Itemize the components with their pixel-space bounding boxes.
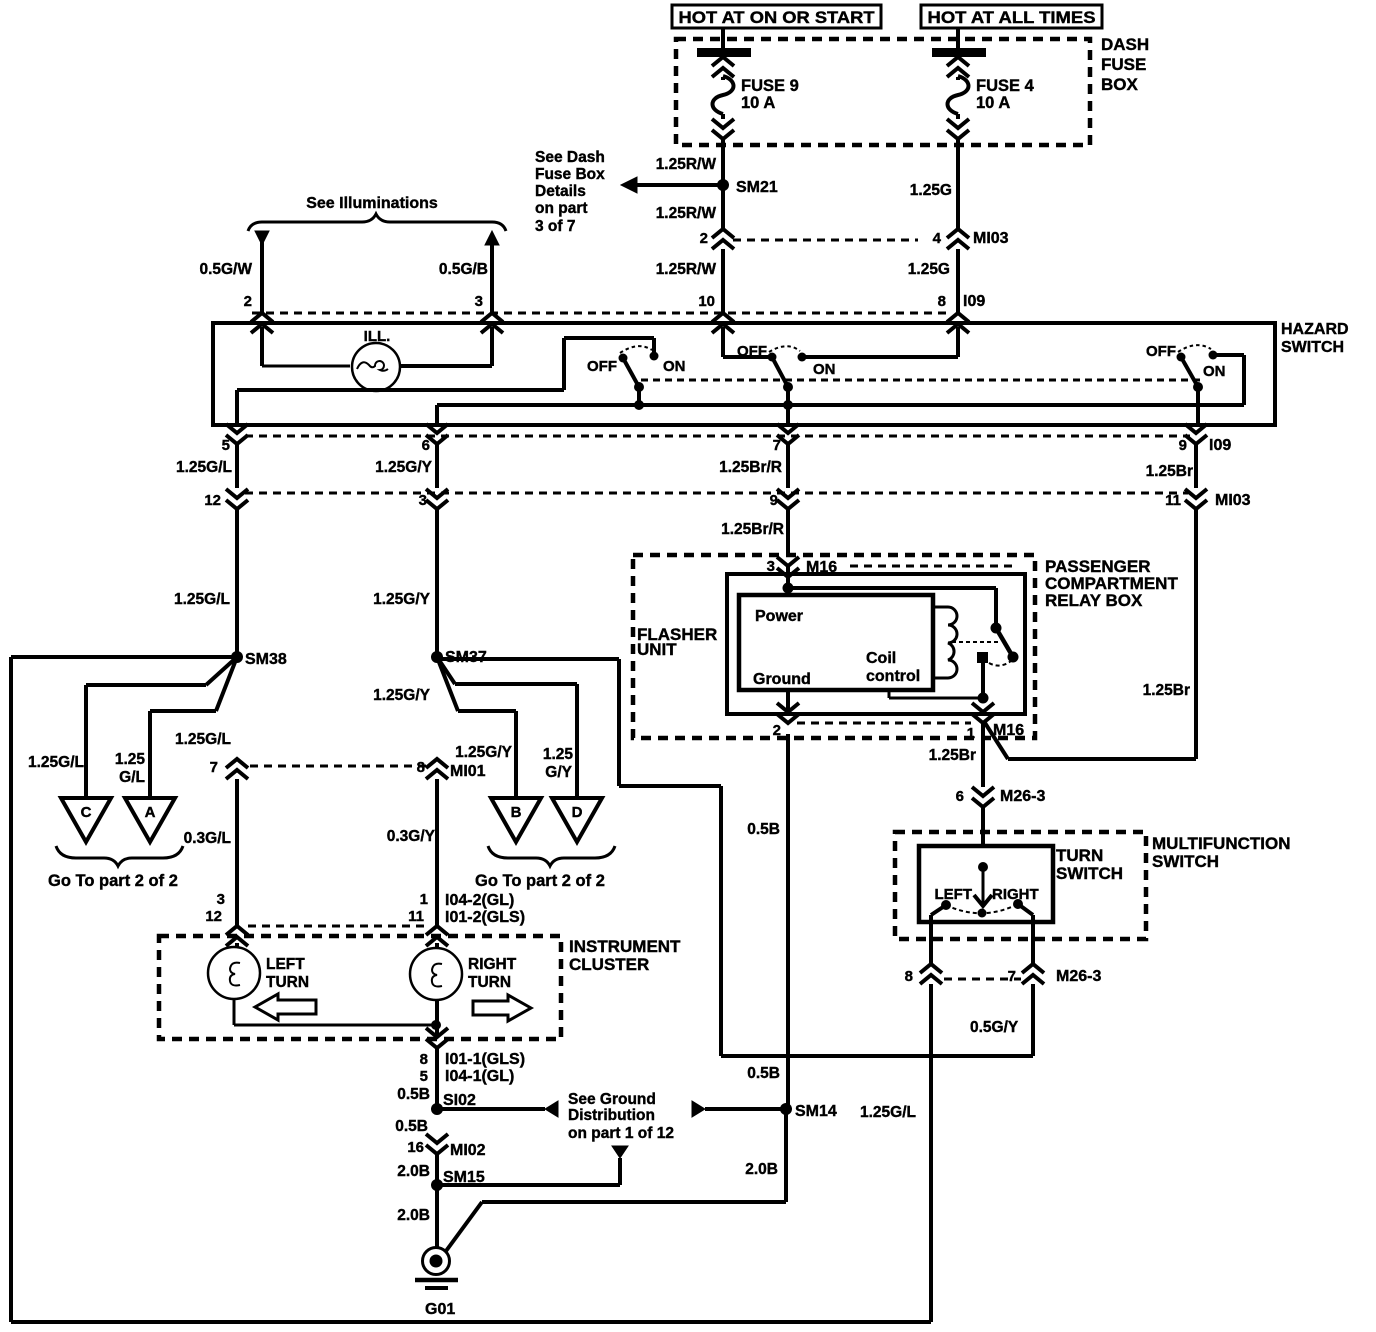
connector MI03 pin 3 bbox=[426, 489, 448, 509]
svg-text:SM21: SM21 bbox=[736, 179, 778, 196]
svg-text:MI03: MI03 bbox=[973, 230, 1009, 247]
svg-text:G/Y: G/Y bbox=[545, 764, 572, 781]
svg-text:1.25G/Y: 1.25G/Y bbox=[455, 744, 513, 761]
svg-text:MI03: MI03 bbox=[1215, 492, 1251, 509]
svg-text:I01-2(GLS): I01-2(GLS) bbox=[445, 909, 525, 926]
svg-text:SWITCH: SWITCH bbox=[1281, 339, 1344, 356]
wire power to relay fixed contact bbox=[788, 586, 996, 590]
svg-text:2: 2 bbox=[773, 722, 781, 739]
svg-text:LEFT: LEFT bbox=[935, 886, 973, 903]
svg-text:control: control bbox=[866, 668, 920, 685]
connector MI01 pin 8 bbox=[426, 759, 448, 779]
connector M16 pin 3 bbox=[777, 557, 799, 577]
svg-text:Power: Power bbox=[755, 608, 803, 625]
wire MI02 to SM15 bbox=[435, 1154, 439, 1185]
svg-text:HAZARD: HAZARD bbox=[1281, 321, 1349, 338]
connector M26-3 dashed row (bottom) bbox=[944, 978, 1021, 981]
svg-text:1.25G/L: 1.25G/L bbox=[176, 459, 232, 476]
svg-text:12: 12 bbox=[205, 908, 222, 925]
connector MI03 pin 4 bbox=[947, 229, 969, 249]
svg-text:1.25G/L: 1.25G/L bbox=[175, 731, 231, 748]
svg-text:SI02: SI02 bbox=[443, 1092, 476, 1109]
svg-text:OFF: OFF bbox=[737, 343, 767, 360]
svg-text:See Dash: See Dash bbox=[535, 149, 605, 166]
svg-text:8: 8 bbox=[905, 968, 913, 985]
svg-text:1.25G/Y: 1.25G/Y bbox=[375, 459, 433, 476]
wire pin8 down (left turn) bbox=[929, 984, 933, 1322]
wire SM15 to ground bbox=[435, 1185, 439, 1247]
svg-text:3: 3 bbox=[419, 492, 427, 509]
connector I09 pin 9 bbox=[1185, 424, 1207, 444]
multifunction switch box (dashed) bbox=[895, 832, 1146, 939]
svg-text:MI01: MI01 bbox=[450, 763, 486, 780]
svg-text:11: 11 bbox=[408, 908, 424, 925]
wire pin5 to MI03 bbox=[235, 443, 239, 488]
hazard bus wire bbox=[437, 403, 1244, 407]
wire pin2 to I09 pin10 bbox=[721, 249, 725, 313]
turn switch RIGHT contact bbox=[1013, 899, 1023, 909]
relay fixed contact bbox=[991, 623, 1002, 634]
svg-text:2: 2 bbox=[700, 230, 708, 247]
svg-text:on part 1 of 12: on part 1 of 12 bbox=[568, 1125, 674, 1142]
svg-text:0.5G/B: 0.5G/B bbox=[439, 261, 488, 278]
passenger compartment relay box (dashed) bbox=[633, 555, 1035, 738]
branch SM37 to D bbox=[437, 657, 455, 684]
svg-text:0.3G/Y: 0.3G/Y bbox=[387, 828, 436, 845]
wire pin4 to I09 pin8 bbox=[956, 249, 960, 313]
switch S1 ON contact bbox=[650, 352, 659, 361]
svg-text:1.25G/L: 1.25G/L bbox=[174, 591, 230, 608]
svg-text:RELAY BOX: RELAY BOX bbox=[1045, 591, 1143, 610]
svg-text:TURN: TURN bbox=[468, 974, 511, 991]
fuse F4 (FUSE 4 10A) bbox=[956, 28, 960, 48]
svg-text:2.0B: 2.0B bbox=[745, 1161, 778, 1178]
cluster connector pin (right) bbox=[426, 926, 448, 946]
connector MI01 dashed row bbox=[250, 765, 426, 768]
wire SM21 to connector MI03 pin2 bbox=[721, 185, 725, 229]
junction S2-bus bbox=[783, 400, 793, 410]
relay housing box bbox=[727, 574, 1025, 714]
wire 1.25Br diagonal to pin1 bbox=[985, 723, 1008, 759]
junction flasher power bbox=[783, 583, 794, 594]
svg-text:0.3G/L: 0.3G/L bbox=[184, 830, 231, 847]
off-page triangle B bbox=[491, 798, 541, 842]
wire right lamp down bbox=[435, 1000, 439, 1037]
svg-text:1.25R/W: 1.25R/W bbox=[656, 205, 717, 222]
fuse F9 (FUSE 9 10A) bbox=[721, 28, 725, 48]
svg-text:Details: Details bbox=[535, 183, 586, 200]
wire flasher ground 0.5B bbox=[786, 734, 790, 1109]
wire MI01-7 to cluster bbox=[235, 779, 239, 926]
wire SM38 frame left bbox=[11, 655, 237, 659]
wire M16-1 to M26-3 pin6 bbox=[981, 723, 985, 787]
svg-text:0.5G/W: 0.5G/W bbox=[199, 261, 252, 278]
svg-text:Distribution: Distribution bbox=[568, 1107, 655, 1124]
illumination left feed arrow (down) bbox=[255, 231, 269, 245]
wire into left turn lamp bbox=[235, 943, 239, 948]
connector MI03 dashed row (top) bbox=[733, 239, 918, 242]
power tag HOT AT ALL TIMES bbox=[921, 5, 1102, 28]
connector I09 dashed row (top) bbox=[252, 312, 948, 315]
wire S2 ON to pin8 bbox=[802, 355, 958, 359]
hazard switch section1 ON wire bbox=[652, 338, 656, 352]
svg-text:1.25Br: 1.25Br bbox=[1146, 463, 1193, 480]
svg-text:on part: on part bbox=[535, 200, 588, 217]
wire into right turn lamp bbox=[435, 943, 439, 948]
switch S1 pivot to bus bbox=[637, 387, 641, 405]
junction relay pin1 bbox=[978, 693, 989, 704]
connector M26-3 pin 8 bbox=[920, 964, 942, 984]
svg-text:2: 2 bbox=[244, 293, 252, 310]
dash fuse box (dashed) bbox=[676, 39, 1090, 145]
svg-text:0.5B: 0.5B bbox=[747, 821, 780, 838]
svg-text:BOX: BOX bbox=[1101, 75, 1139, 94]
see ground distribution arrow (left) bbox=[437, 1107, 545, 1111]
svg-text:D: D bbox=[572, 804, 583, 821]
wire M16-3 to flasher power bbox=[786, 566, 790, 595]
svg-text:I01-1(GLS): I01-1(GLS) bbox=[445, 1051, 525, 1068]
connector MI02 pin 16 bbox=[426, 1134, 448, 1154]
svg-text:1.25Br/R: 1.25Br/R bbox=[721, 521, 784, 538]
switch S1 OFF contact bbox=[619, 354, 628, 363]
svg-text:INSTRUMENT: INSTRUMENT bbox=[569, 937, 681, 956]
svg-text:3: 3 bbox=[475, 293, 483, 310]
relay contact pad bbox=[977, 652, 988, 663]
wire MI03-9 to M16-3 bbox=[786, 508, 790, 557]
power tag HOT AT ON OR START bbox=[672, 5, 881, 28]
svg-text:M26-3: M26-3 bbox=[1000, 788, 1045, 805]
svg-text:7: 7 bbox=[210, 759, 218, 776]
svg-text:7: 7 bbox=[1008, 968, 1016, 985]
wire to ILL lamp left bbox=[262, 365, 350, 368]
svg-text:CLUSTER: CLUSTER bbox=[569, 955, 649, 974]
svg-text:MULTIFUNCTION: MULTIFUNCTION bbox=[1152, 834, 1291, 853]
lamp RIGHT TURN bbox=[410, 948, 462, 1000]
switch S2 pivot bbox=[783, 382, 793, 392]
wire LEFT contact to pin8 bbox=[931, 905, 946, 915]
svg-text:1: 1 bbox=[420, 891, 428, 908]
ground G01 bbox=[423, 1248, 450, 1275]
lamp LEFT TURN bbox=[208, 947, 260, 999]
svg-text:10 A: 10 A bbox=[976, 94, 1010, 112]
wire pin6 to turn switch bbox=[981, 807, 985, 848]
svg-text:See Ground: See Ground bbox=[568, 1091, 656, 1108]
cluster connector pin (left) bbox=[226, 926, 248, 946]
cluster connector dashed row (top) bbox=[248, 925, 426, 928]
svg-text:8: 8 bbox=[938, 293, 946, 310]
svg-text:I04-2(GL): I04-2(GL) bbox=[445, 892, 514, 909]
svg-text:0.5B: 0.5B bbox=[397, 1086, 430, 1103]
svg-text:1.25: 1.25 bbox=[543, 746, 574, 763]
left turn arrow icon bbox=[255, 994, 316, 1020]
see dash fuse box reference arrow bbox=[637, 183, 723, 187]
branch SM38 to A bbox=[216, 657, 237, 711]
node SM15 bbox=[431, 1179, 443, 1191]
svg-text:ON: ON bbox=[1203, 363, 1226, 380]
svg-text:SM14: SM14 bbox=[795, 1103, 837, 1120]
connector I09 dashed row (bottom) bbox=[245, 435, 1190, 438]
svg-text:6: 6 bbox=[422, 437, 430, 454]
wire pin7 to MI03 bbox=[786, 443, 790, 488]
turn switch arc dot bbox=[978, 909, 987, 918]
svg-text:1.25G: 1.25G bbox=[908, 261, 950, 278]
switch S2 pivot to pin7 bbox=[786, 387, 790, 423]
switch S2 wiper bbox=[772, 357, 788, 387]
brace under B and D bbox=[488, 846, 615, 866]
svg-text:OFF: OFF bbox=[1146, 343, 1176, 360]
connector MI03 pin 9 bbox=[777, 489, 799, 509]
svg-text:10 A: 10 A bbox=[741, 94, 775, 112]
off-page triangle C bbox=[61, 798, 111, 842]
svg-text:I09: I09 bbox=[963, 293, 985, 310]
svg-text:I09: I09 bbox=[1209, 437, 1231, 454]
svg-text:5: 5 bbox=[222, 437, 230, 454]
svg-text:Go To part 2 of 2: Go To part 2 of 2 bbox=[475, 872, 605, 890]
switch S3 ON contact bbox=[1209, 351, 1218, 360]
svg-text:M16: M16 bbox=[993, 722, 1024, 739]
svg-text:UNIT: UNIT bbox=[637, 640, 677, 659]
svg-text:C: C bbox=[81, 804, 92, 821]
wire pin7 down (0.5G/Y) bbox=[1031, 984, 1035, 1056]
branch SM37 to B bbox=[437, 657, 458, 711]
connector I09 pin 6 bbox=[426, 424, 448, 444]
svg-text:1.25Br/R: 1.25Br/R bbox=[719, 459, 782, 476]
connector M16 pin 2 bbox=[777, 703, 799, 723]
svg-text:I04-1(GL): I04-1(GL) bbox=[445, 1068, 514, 1085]
connector M16 pin 1 bbox=[972, 703, 994, 723]
connector M26-3 pin 6 bbox=[972, 787, 994, 807]
svg-text:0.5B: 0.5B bbox=[747, 1065, 780, 1082]
svg-text:TURN: TURN bbox=[266, 974, 309, 991]
see illuminations brace bbox=[248, 214, 506, 231]
wire pad to pin1 bbox=[981, 661, 985, 698]
relay coil bbox=[933, 606, 948, 609]
switch S1 contact arc bbox=[620, 346, 652, 353]
switch S3 wiper bbox=[1181, 357, 1198, 387]
svg-text:1.25G/L: 1.25G/L bbox=[860, 1104, 916, 1121]
wire flasher ground to M16-2 bbox=[786, 690, 790, 712]
svg-text:SWITCH: SWITCH bbox=[1056, 864, 1123, 883]
svg-text:SM38: SM38 bbox=[245, 651, 287, 668]
wire MI03-3 to SM37 bbox=[435, 508, 439, 657]
wire pin2 into box bbox=[260, 327, 264, 366]
node SM21 bbox=[717, 179, 729, 191]
connector MI03 pin 12 bbox=[226, 489, 248, 509]
svg-text:See Illuminations: See Illuminations bbox=[306, 195, 438, 212]
switch S3 OFF contact bbox=[1177, 353, 1186, 362]
wire cluster to SI02 bbox=[435, 1047, 439, 1109]
wire MI03-11 down (1.25Br) bbox=[1194, 508, 1198, 759]
wire left lamp to junction bbox=[233, 999, 236, 1025]
svg-text:1.25G/L: 1.25G/L bbox=[28, 754, 84, 771]
wire pin9 to MI03 bbox=[1194, 443, 1198, 488]
connector MI01 pin 7 bbox=[226, 759, 248, 779]
connector M26-3 pin 7 bbox=[1022, 964, 1044, 984]
svg-text:3: 3 bbox=[217, 891, 225, 908]
flasher unit body box bbox=[739, 595, 933, 690]
svg-text:Coil: Coil bbox=[866, 650, 896, 667]
svg-text:Go To part 2 of 2: Go To part 2 of 2 bbox=[48, 872, 178, 890]
svg-text:1.25R/W: 1.25R/W bbox=[656, 261, 717, 278]
svg-text:FUSE: FUSE bbox=[1101, 55, 1146, 74]
relay moving contact pivot bbox=[1008, 652, 1019, 663]
svg-text:1.25G: 1.25G bbox=[910, 182, 952, 199]
connector I09 pin 5 bbox=[226, 424, 248, 444]
svg-text:Ground: Ground bbox=[753, 671, 811, 688]
connector M16 dashed row (top) bbox=[850, 565, 1015, 568]
off-page triangle D bbox=[552, 798, 602, 842]
node SM37 bbox=[431, 651, 443, 663]
see ground distribution arrow (right) bbox=[692, 1101, 705, 1117]
svg-text:3 of 7: 3 of 7 bbox=[535, 218, 575, 235]
svg-text:Fuse Box: Fuse Box bbox=[535, 166, 605, 183]
svg-text:DASH: DASH bbox=[1101, 35, 1149, 54]
connector I09 pin 3 bbox=[481, 313, 503, 333]
svg-text:ON: ON bbox=[813, 361, 836, 378]
svg-text:16: 16 bbox=[407, 1139, 424, 1156]
wire pin6 to MI03 bbox=[435, 443, 439, 488]
switch S3 pivot bbox=[1193, 382, 1203, 392]
wire pin10 to S2 bbox=[721, 327, 725, 357]
svg-text:G/L: G/L bbox=[119, 769, 145, 786]
turn switch box bbox=[919, 846, 1053, 922]
wire pin3 into box bbox=[490, 327, 494, 366]
relay moving contact arm bbox=[996, 628, 1013, 657]
hazard switch box bbox=[213, 323, 1275, 425]
svg-text:SWITCH: SWITCH bbox=[1152, 852, 1219, 871]
turn switch contact arc bbox=[946, 904, 1018, 913]
instrument cluster box (dashed) bbox=[159, 936, 561, 1039]
svg-text:MI02: MI02 bbox=[450, 1142, 486, 1159]
svg-text:M26-3: M26-3 bbox=[1056, 968, 1101, 985]
wire RIGHT contact to pin7 bbox=[1018, 904, 1033, 915]
turn switch common junction bbox=[978, 862, 988, 872]
switch S3 pivot to pin9 bbox=[1196, 387, 1200, 423]
connector MI03 dashed row (bottom) bbox=[245, 492, 1188, 495]
svg-text:1.25: 1.25 bbox=[115, 751, 146, 768]
svg-text:TURN: TURN bbox=[1056, 846, 1103, 865]
off-page triangle A bbox=[125, 798, 175, 842]
illumination right feed arrow (up) bbox=[485, 231, 499, 245]
right turn arrow icon bbox=[473, 995, 531, 1021]
hazard switch mechanical link (dashed) bbox=[641, 379, 1200, 382]
svg-text:0.5B: 0.5B bbox=[395, 1118, 428, 1135]
svg-text:12: 12 bbox=[204, 492, 221, 509]
wire S3 ON contact stub bbox=[1213, 353, 1216, 357]
svg-text:8: 8 bbox=[420, 1051, 428, 1068]
connector MI03 pin 11 bbox=[1185, 489, 1207, 509]
wire coil control to pin1 bbox=[888, 690, 891, 698]
node SI02 bbox=[431, 1103, 443, 1115]
svg-text:FUSE 4: FUSE 4 bbox=[976, 77, 1035, 95]
svg-text:OFF: OFF bbox=[587, 358, 617, 375]
svg-text:9: 9 bbox=[1179, 437, 1187, 454]
svg-text:1: 1 bbox=[967, 725, 975, 742]
svg-text:11: 11 bbox=[1165, 492, 1181, 509]
svg-text:A: A bbox=[145, 804, 156, 821]
svg-text:1.25G/Y: 1.25G/Y bbox=[373, 591, 431, 608]
relay coil-contact dashed link bbox=[952, 641, 1000, 643]
svg-text:1.25G/Y: 1.25G/Y bbox=[373, 687, 431, 704]
connector I09 pin 8 bbox=[947, 313, 969, 333]
svg-text:1.25Br: 1.25Br bbox=[1143, 682, 1190, 699]
connector I09 pin 10 bbox=[712, 313, 734, 333]
svg-text:6: 6 bbox=[956, 788, 964, 805]
switch S2 ON contact bbox=[798, 353, 807, 362]
relay contact dashed arc bbox=[989, 661, 1011, 666]
svg-text:1.25Br: 1.25Br bbox=[929, 747, 976, 764]
svg-text:HOT AT ON OR START: HOT AT ON OR START bbox=[679, 9, 875, 27]
switch S1 pivot bbox=[634, 382, 644, 392]
svg-text:RIGHT: RIGHT bbox=[468, 956, 517, 973]
lamp ILL bbox=[352, 343, 400, 391]
svg-text:FUSE 9: FUSE 9 bbox=[741, 77, 799, 95]
svg-text:0.5G/Y: 0.5G/Y bbox=[970, 1019, 1019, 1036]
node SM38 bbox=[231, 651, 243, 663]
turn switch LEFT contact bbox=[941, 900, 951, 910]
turn switch wiper arrow bbox=[982, 867, 985, 904]
svg-text:ON: ON bbox=[663, 358, 686, 375]
junction S1-bus bbox=[634, 400, 644, 410]
branch SM38 to C bbox=[206, 657, 237, 685]
wire SM37 right-turn run bbox=[437, 657, 619, 661]
switch S3 contact arc bbox=[1178, 345, 1211, 352]
junction cluster lamps bbox=[431, 1020, 441, 1030]
svg-text:HOT AT ALL TIMES: HOT AT ALL TIMES bbox=[928, 9, 1096, 27]
connector MI03 pin 2 bbox=[712, 229, 734, 249]
svg-text:B: B bbox=[511, 804, 522, 821]
svg-text:7: 7 bbox=[773, 437, 781, 454]
switch S2 contact arc bbox=[769, 346, 800, 352]
wire SM14 to ground run bbox=[784, 1109, 788, 1202]
cluster exit connector bbox=[426, 1028, 448, 1048]
svg-text:5: 5 bbox=[420, 1068, 428, 1085]
switch S1 wiper bbox=[623, 358, 639, 387]
svg-text:4: 4 bbox=[933, 230, 942, 247]
svg-text:10: 10 bbox=[698, 293, 715, 310]
brace under C and A bbox=[56, 846, 183, 866]
svg-text:G01: G01 bbox=[425, 1301, 455, 1318]
ground distribution branch arrow bbox=[437, 1183, 620, 1187]
wire MI03-12 to SM38 bbox=[235, 508, 239, 657]
wire ILL lamp to pin3 bbox=[400, 364, 492, 368]
wire fuse4 to pin4 bbox=[956, 185, 960, 229]
connector I09 pin 2 bbox=[251, 313, 273, 333]
svg-text:2.0B: 2.0B bbox=[397, 1163, 430, 1180]
wire MI01-8 to cluster bbox=[435, 779, 439, 926]
svg-text:9: 9 bbox=[770, 492, 778, 509]
node SM14 bbox=[780, 1103, 792, 1115]
svg-text:2.0B: 2.0B bbox=[397, 1207, 430, 1224]
connector M16 dashed row (bottom) bbox=[797, 722, 971, 725]
connector I09 pin 7 bbox=[777, 424, 799, 444]
switch S2 OFF contact bbox=[768, 353, 777, 362]
svg-text:LEFT: LEFT bbox=[266, 956, 305, 973]
svg-text:1.25R/W: 1.25R/W bbox=[656, 156, 717, 173]
